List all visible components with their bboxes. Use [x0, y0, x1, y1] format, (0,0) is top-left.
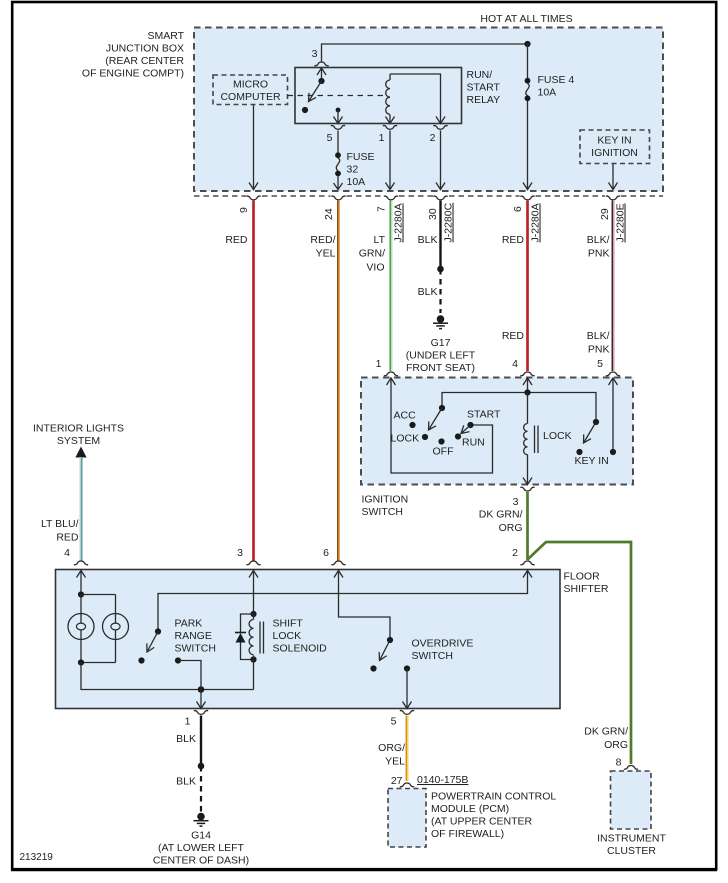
svg-text:(UNDER LEFT: (UNDER LEFT — [406, 350, 476, 362]
svg-text:SYSTEM: SYSTEM — [57, 435, 100, 447]
wire: relay pin 5 to fuse 32 — [337, 131, 339, 153]
svg-text:FLOOR: FLOOR — [564, 571, 601, 583]
svg-text:4: 4 — [64, 547, 70, 559]
svg-text:3: 3 — [237, 547, 243, 559]
svg-text:BLK/: BLK/ — [587, 234, 610, 246]
diode (solenoid clamp) — [241, 614, 254, 632]
park range switch contact to pin 1 — [175, 657, 181, 663]
svg-text:KEY IN: KEY IN — [597, 135, 631, 147]
svg-text:BLK: BLK — [418, 234, 438, 246]
svg-text:1: 1 — [185, 716, 191, 728]
svg-text:BLK: BLK — [176, 733, 196, 745]
svg-text:OFF: OFF — [433, 446, 454, 458]
svg-text:JUNCTION BOX: JUNCTION BOX — [106, 43, 184, 55]
relay contact to pin 5 — [336, 108, 341, 113]
smart junction box (dashed enclosure) — [194, 28, 663, 192]
svg-text:BLK: BLK — [176, 776, 196, 788]
fuse FUSE 4 10A — [525, 78, 531, 84]
svg-text:BLK: BLK — [418, 286, 438, 298]
SJB bottom connector line with bumps — [194, 195, 663, 197]
contact RUN with blade — [455, 433, 461, 439]
svg-text:1: 1 — [376, 358, 382, 370]
overdrive switch contact to pin 5 — [404, 665, 410, 671]
svg-text:FUSE: FUSE — [347, 151, 375, 163]
svg-text:8: 8 — [616, 757, 622, 769]
svg-text:OF FIREWALL): OF FIREWALL) — [431, 828, 504, 840]
svg-text:9: 9 — [238, 207, 250, 213]
contact OFF — [438, 438, 444, 444]
wire: top bus from relay pin 3 to fuse 4 — [322, 44, 528, 62]
svg-text:RED: RED — [502, 234, 525, 246]
svg-text:IGNITION: IGNITION — [591, 147, 638, 159]
svg-text:(AT LOWER LEFT: (AT LOWER LEFT — [158, 842, 245, 854]
connector bumps at ignition pins 1 4 5 — [384, 372, 620, 376]
wire BLK (dashed) to ground — [200, 766, 202, 812]
wire ORG/YEL: floor shifter pin 5 to PCM — [405, 716, 407, 782]
ground G17 — [437, 315, 445, 323]
svg-text:INTERIOR LIGHTS: INTERIOR LIGHTS — [33, 423, 124, 435]
wire: fuse 32 to SJB pin 24 — [337, 176, 339, 189]
node: junction at pin 1 drop — [198, 686, 205, 693]
fuse FUSE 32 10A — [335, 152, 341, 158]
node: junction at fuse 4 top — [524, 41, 530, 47]
wire: bus down to fuse 4 — [527, 44, 529, 78]
svg-text:POWERTRAIN CONTROL: POWERTRAIN CONTROL — [431, 791, 556, 803]
svg-text:ORG/: ORG/ — [378, 742, 405, 754]
wire: junction to pin 1 — [200, 690, 202, 709]
svg-text:3: 3 — [312, 48, 318, 60]
svg-text:CENTER OF DASH): CENTER OF DASH) — [153, 855, 249, 867]
svg-text:DK GRN/: DK GRN/ — [479, 509, 523, 521]
svg-text:MODULE (PCM): MODULE (PCM) — [431, 803, 509, 815]
svg-text:LOCK: LOCK — [391, 433, 420, 445]
contact START — [467, 422, 473, 428]
relay coil — [389, 74, 391, 80]
svg-text:GRN/: GRN/ — [359, 248, 385, 260]
overdrive switch contact (open) — [370, 665, 376, 671]
wire: pin 3 to shift lock solenoid — [253, 571, 255, 615]
lamp (right shift indicator bulb) — [103, 614, 129, 640]
wire RED/YEL: SJB pin 24 to floor shifter pin 6 — [337, 201, 339, 561]
svg-text:SHIFTER: SHIFTER — [564, 583, 609, 595]
switch KEY IN — [593, 419, 599, 425]
svg-text:PNK: PNK — [588, 344, 610, 356]
wire: pin 6 to overdrive switch — [339, 571, 391, 641]
arrow to interior lights system — [75, 447, 86, 458]
wire BLK/PNK: SJB pin 29 to ignition switch pin 5 — [611, 201, 613, 372]
svg-text:START: START — [467, 82, 501, 94]
pin arrow into relay pin 3 — [317, 68, 326, 75]
overdrive switch blade — [380, 640, 391, 661]
svg-text:MICRO: MICRO — [233, 79, 268, 91]
svg-text:5: 5 — [327, 132, 333, 144]
svg-text:LOCK: LOCK — [273, 630, 302, 642]
svg-text:SMART: SMART — [147, 30, 184, 42]
svg-text:10A: 10A — [538, 87, 557, 99]
svg-text:30: 30 — [427, 208, 439, 220]
wire: lamp return to bottom bus — [81, 663, 254, 690]
svg-text:COMPUTER: COMPUTER — [220, 91, 281, 103]
wire: micro computer to SJB pin 9 — [253, 105, 255, 190]
wire: ignition top bus — [442, 393, 596, 423]
svg-text:G17: G17 — [431, 337, 451, 349]
svg-text:CLUSTER: CLUSTER — [607, 845, 656, 857]
svg-text:BLK/: BLK/ — [587, 330, 610, 342]
wire: pin 1 down and around rotary switch — [391, 378, 493, 473]
wire DK GRN/ORG: ignition pin 3 to floor shifter pin 2 — [526, 492, 529, 560]
wire: relay pin 2 to SJB pin 30 — [440, 131, 442, 190]
park range switch blade — [147, 632, 158, 653]
svg-text:SWITCH: SWITCH — [175, 643, 216, 655]
svg-text:32: 32 — [347, 164, 359, 176]
shift lock solenoid coil — [249, 620, 253, 655]
svg-text:RUN/: RUN/ — [467, 69, 493, 81]
wire RED: SJB pin 6 to ignition switch pin 4 — [526, 201, 529, 372]
wire: pin 4 to top bus — [527, 378, 529, 393]
svg-text:2: 2 — [512, 547, 518, 559]
connector bumps at floor shifter pins 4 3 6 2 — [74, 561, 535, 565]
svg-text:LT BLU/: LT BLU/ — [41, 518, 79, 530]
svg-text:RED: RED — [56, 532, 79, 544]
wire LT GRN/VIO: SJB pin 7 to ignition switch pin 1 — [389, 201, 391, 372]
pin arrows into ignition — [387, 378, 396, 385]
svg-text:LT: LT — [374, 234, 386, 246]
wire: pin 4 to lamps — [80, 571, 82, 595]
svg-text:213219: 213219 — [20, 852, 54, 863]
wire BLK: floor shifter pin 1 — [200, 716, 202, 767]
svg-text:YEL: YEL — [385, 756, 405, 768]
svg-text:SHIFT: SHIFT — [273, 618, 304, 630]
svg-text:2: 2 — [430, 132, 436, 144]
key in ignition (dashed box) — [580, 130, 650, 164]
connector bump at PCM pin 27 — [400, 783, 414, 787]
wire: lock coil to ignition pin 3 — [527, 455, 529, 485]
contact ACC — [409, 422, 415, 428]
relay RUN/START RELAY (solid box) — [295, 68, 462, 124]
svg-text:OF ENGINE COMPT): OF ENGINE COMPT) — [82, 68, 184, 80]
wire: relay pin 1 to SJB pin 7 — [389, 131, 391, 190]
wire: key in ignition to SJB pin 29 — [612, 164, 614, 190]
svg-text:(REAR CENTER: (REAR CENTER — [105, 55, 184, 67]
solenoid LOCK coil — [527, 393, 529, 424]
svg-text:HOT AT ALL TIMES: HOT AT ALL TIMES — [480, 13, 572, 25]
svg-text:OVERDRIVE: OVERDRIVE — [412, 638, 474, 650]
svg-text:4: 4 — [512, 358, 518, 370]
svg-text:RANGE: RANGE — [175, 630, 212, 642]
svg-text:J-2280E: J-2280E — [615, 203, 627, 242]
node: splice on BLK — [437, 266, 444, 273]
svg-text:IGNITION: IGNITION — [362, 494, 409, 506]
svg-text:(AT UPPER CENTER: (AT UPPER CENTER — [431, 816, 533, 828]
svg-text:RED: RED — [502, 330, 525, 342]
svg-text:5: 5 — [597, 358, 603, 370]
svg-text:VIO: VIO — [366, 262, 384, 274]
park range switch pivot — [155, 628, 161, 634]
ignition switch (dashed enclosure) — [361, 378, 633, 485]
svg-text:DK GRN/: DK GRN/ — [584, 726, 628, 738]
wire: relay coil top to pin 2 — [390, 74, 441, 123]
svg-text:PARK: PARK — [175, 618, 203, 630]
node: junction pin 4 / bus — [524, 389, 530, 395]
relay switch pivot — [318, 78, 324, 84]
wire BLK: SJB pin 30 to ground G17 — [439, 201, 441, 270]
svg-text:G14: G14 — [191, 830, 211, 842]
instrument cluster (dashed box) — [611, 771, 652, 829]
svg-text:SWITCH: SWITCH — [412, 650, 453, 662]
svg-text:YEL: YEL — [316, 248, 336, 260]
wire: pin 2 bus to park range switch — [158, 571, 528, 632]
svg-text:0140-175B: 0140-175B — [417, 774, 468, 786]
svg-text:RED: RED — [225, 234, 248, 246]
svg-text:FRONT SEAT): FRONT SEAT) — [406, 362, 475, 374]
svg-text:ORG: ORG — [604, 739, 628, 751]
svg-text:7: 7 — [376, 206, 388, 212]
rotary switch blade toward LOCK — [429, 408, 443, 430]
rotary switch pivot — [439, 405, 445, 411]
connector bump at instrument cluster pin 8 — [624, 766, 638, 770]
wire: fuse 4 to SJB pin 6 — [527, 101, 529, 190]
floor shifter (solid enclosure) — [56, 570, 561, 709]
svg-text:SWITCH: SWITCH — [362, 506, 403, 518]
svg-text:INSTRUMENT: INSTRUMENT — [597, 833, 666, 845]
park range switch contact (open) — [138, 657, 144, 663]
svg-text:ACC: ACC — [394, 410, 417, 422]
wire: solenoid to bottom bus — [253, 656, 255, 690]
svg-text:LOCK: LOCK — [543, 430, 572, 442]
contact LOCK — [422, 434, 428, 440]
svg-text:J-2280C: J-2280C — [443, 202, 455, 242]
svg-text:RUN: RUN — [462, 437, 485, 449]
svg-text:ORG: ORG — [499, 522, 523, 534]
svg-text:KEY IN: KEY IN — [575, 455, 609, 467]
connector bump: relay pin 3 — [314, 62, 328, 66]
ground G14 — [197, 813, 205, 821]
svg-text:6: 6 — [512, 206, 524, 212]
dashed control line: micro computer to relay coil — [288, 95, 387, 97]
micro computer (dashed box) — [213, 75, 288, 105]
lamp (left shift indicator bulb) — [68, 614, 94, 640]
svg-text:1: 1 — [379, 132, 385, 144]
svg-text:27: 27 — [391, 775, 403, 787]
svg-text:6: 6 — [323, 547, 329, 559]
wire LT BLU/RED: floor shifter pin 4 to interior lights — [79, 457, 81, 561]
relay switch blade — [309, 81, 322, 102]
wire: pin 5 stub — [612, 378, 614, 452]
svg-text:29: 29 — [599, 208, 611, 220]
svg-text:RED/: RED/ — [310, 234, 335, 246]
pin arrows into floor shifter — [77, 571, 86, 578]
svg-text:10A: 10A — [347, 176, 366, 188]
svg-text:J-2280A: J-2280A — [393, 203, 405, 242]
node: splice on BLK — [198, 763, 205, 770]
connector bumps at floor shifter pins 1 5 — [194, 711, 414, 715]
svg-text:5: 5 — [391, 716, 397, 728]
svg-text:FUSE 4: FUSE 4 — [538, 74, 575, 86]
svg-text:SOLENOID: SOLENOID — [273, 643, 328, 655]
overdrive switch pivot — [387, 637, 393, 643]
relay contact (open) — [302, 107, 308, 113]
svg-text:RELAY: RELAY — [467, 94, 501, 106]
svg-text:24: 24 — [323, 208, 335, 220]
connector bumps under relay: pins 5, 1, 2 — [331, 126, 345, 130]
svg-text:3: 3 — [513, 496, 519, 508]
wire DK GRN/ORG: branch to instrument cluster — [528, 542, 632, 764]
wire: lamp bottoms joined — [80, 640, 82, 663]
connector bumps at SJB pins 9 24 7 30 6 29 — [246, 196, 620, 200]
wire BLK (dashed) to ground — [439, 269, 441, 313]
wire RED: SJB pin 9 to floor shifter pin 3 — [252, 201, 255, 561]
powertrain control module (dashed box) — [388, 789, 426, 848]
svg-text:PNK: PNK — [588, 248, 610, 260]
svg-text:J-2280A: J-2280A — [530, 203, 542, 242]
connector bump at ignition pin 3 — [520, 487, 534, 491]
svg-text:START: START — [467, 409, 501, 421]
